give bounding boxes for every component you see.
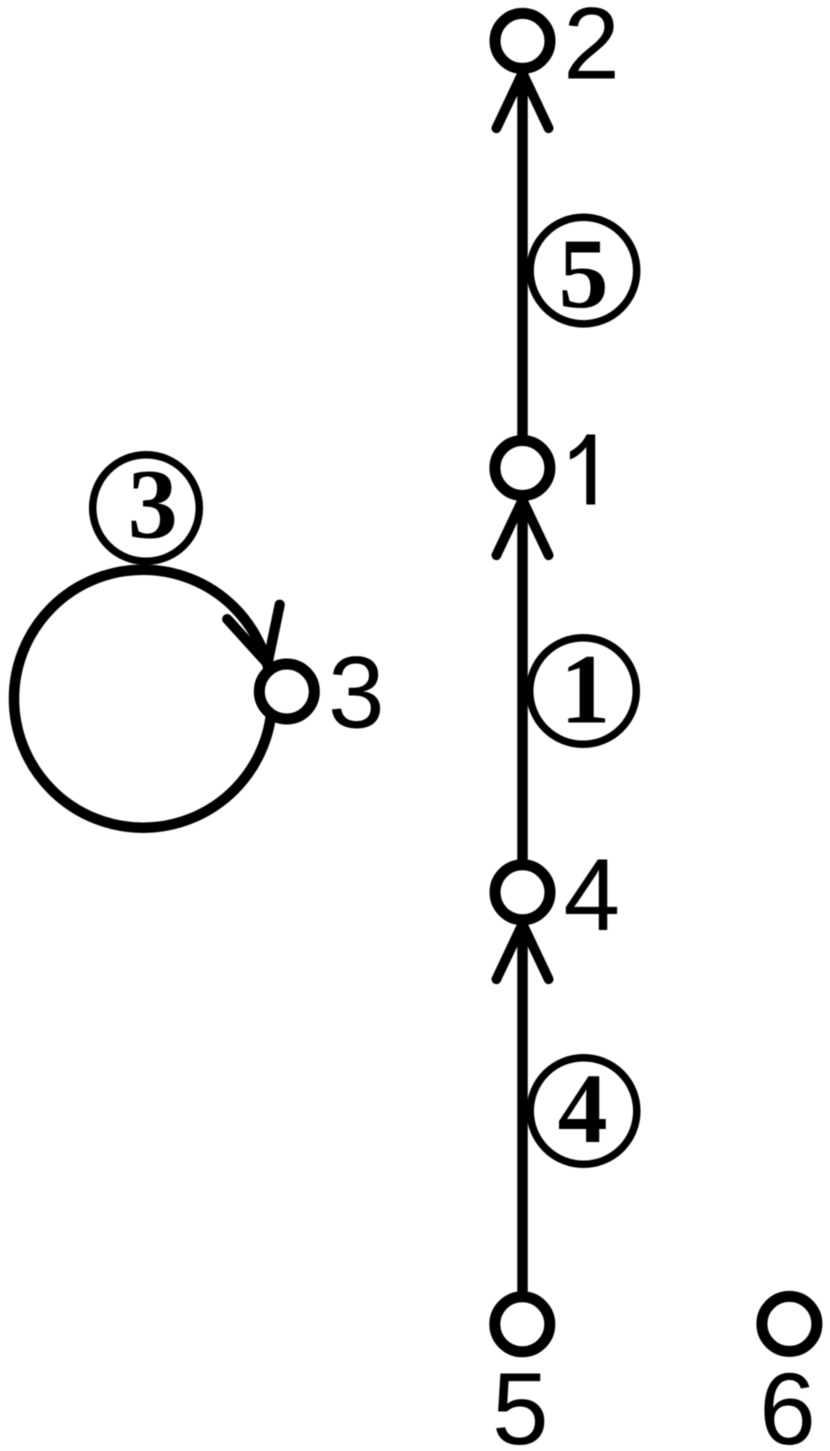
svg-text:3: 3 (328, 636, 385, 750)
svg-text:4: 4 (564, 838, 621, 952)
svg-text:5: 5 (492, 1352, 549, 1451)
svg-text:4: 4 (558, 1053, 608, 1164)
svg-text:3: 3 (128, 448, 178, 559)
svg-text:1: 1 (560, 634, 610, 745)
svg-text:2: 2 (563, 0, 620, 101)
svg-text:5: 5 (559, 218, 609, 329)
svg-text:6: 6 (759, 1352, 816, 1451)
